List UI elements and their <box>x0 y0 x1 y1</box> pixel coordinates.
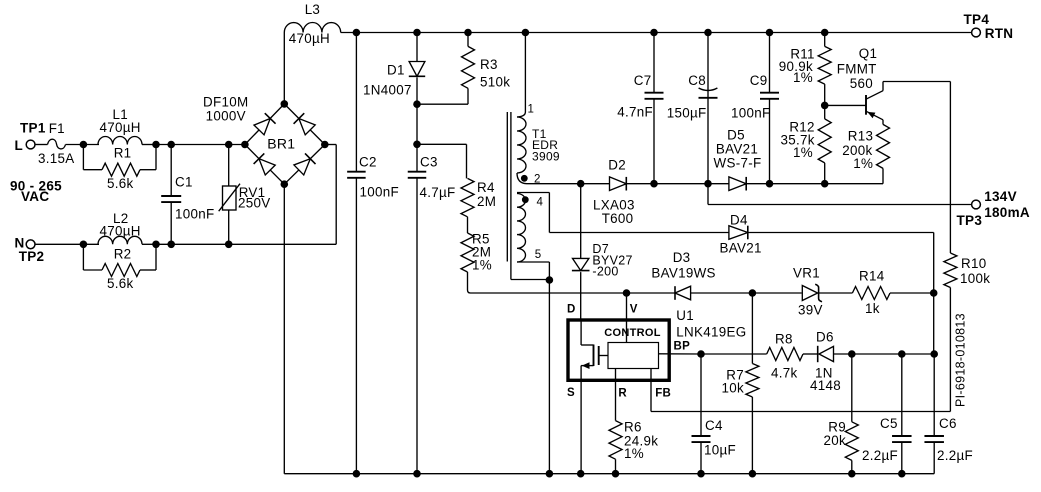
svg-text:LNK419EG: LNK419EG <box>676 325 746 340</box>
svg-text:D2: D2 <box>608 158 626 173</box>
svg-text:BAV21: BAV21 <box>716 142 758 157</box>
svg-text:T600: T600 <box>602 211 634 226</box>
svg-text:R6: R6 <box>624 420 642 435</box>
svg-text:1%: 1% <box>793 145 813 160</box>
svg-text:BP: BP <box>674 341 691 353</box>
svg-text:4.7k: 4.7k <box>771 366 798 381</box>
svg-text:RTN: RTN <box>985 26 1014 41</box>
svg-text:D: D <box>567 304 576 316</box>
svg-text:100nF: 100nF <box>175 207 214 222</box>
svg-text:TP3: TP3 <box>957 213 983 228</box>
svg-text:PI-6918-010813: PI-6918-010813 <box>954 313 968 407</box>
svg-text:100nF: 100nF <box>360 185 399 200</box>
svg-text:1%: 1% <box>793 70 813 85</box>
svg-text:1%: 1% <box>472 258 492 273</box>
svg-text:D4: D4 <box>730 213 748 228</box>
svg-text:10µF: 10µF <box>704 443 736 458</box>
svg-text:U1: U1 <box>676 308 694 323</box>
svg-text:L3: L3 <box>305 2 321 17</box>
svg-text:250V: 250V <box>238 195 270 210</box>
svg-text:TP4: TP4 <box>964 12 990 27</box>
svg-text:470µH: 470µH <box>100 224 141 239</box>
svg-text:FB: FB <box>655 388 671 400</box>
svg-text:WS-7-F: WS-7-F <box>714 156 762 171</box>
svg-text:560: 560 <box>850 76 873 91</box>
svg-text:4.7µF: 4.7µF <box>420 185 456 200</box>
svg-text:5.6k: 5.6k <box>107 276 134 291</box>
svg-text:D1: D1 <box>387 63 405 78</box>
svg-text:-200: -200 <box>592 264 618 278</box>
svg-text:F1: F1 <box>49 121 65 136</box>
svg-text:1: 1 <box>528 104 535 116</box>
svg-text:D3: D3 <box>673 250 691 265</box>
svg-text:100nF: 100nF <box>731 106 770 121</box>
svg-text:R: R <box>618 388 627 400</box>
svg-text:C7: C7 <box>634 73 652 88</box>
svg-text:DF10M: DF10M <box>203 95 248 110</box>
svg-text:10k: 10k <box>722 381 745 396</box>
svg-text:1N4007: 1N4007 <box>363 83 412 98</box>
svg-text:TP2: TP2 <box>19 249 45 264</box>
svg-text:TP1: TP1 <box>20 121 46 136</box>
svg-text:Q1: Q1 <box>859 46 877 61</box>
svg-text:C1: C1 <box>175 174 193 189</box>
svg-text:L: L <box>15 138 24 153</box>
svg-text:C5: C5 <box>880 416 898 431</box>
svg-text:134V: 134V <box>984 189 1017 204</box>
svg-text:C4: C4 <box>705 418 723 433</box>
svg-text:1000V: 1000V <box>206 108 246 123</box>
svg-text:C2: C2 <box>359 155 377 170</box>
svg-text:R14: R14 <box>859 269 885 284</box>
svg-text:100k: 100k <box>960 271 990 286</box>
svg-text:4.7nF: 4.7nF <box>617 105 653 120</box>
svg-text:D6: D6 <box>816 330 834 345</box>
svg-text:4: 4 <box>537 197 544 209</box>
svg-text:CONTROL: CONTROL <box>604 327 660 339</box>
svg-text:S: S <box>567 387 575 399</box>
svg-text:BR1: BR1 <box>267 135 295 151</box>
svg-text:510k: 510k <box>480 75 510 90</box>
svg-text:180mA: 180mA <box>984 205 1030 220</box>
svg-text:C6: C6 <box>939 416 957 431</box>
svg-text:R4: R4 <box>477 180 495 195</box>
svg-text:R3: R3 <box>480 57 498 72</box>
svg-text:2.2µF: 2.2µF <box>937 448 973 463</box>
svg-text:VAC: VAC <box>21 189 49 204</box>
svg-text:470µH: 470µH <box>289 31 330 46</box>
svg-text:C9: C9 <box>750 73 768 88</box>
svg-text:R2: R2 <box>114 247 132 262</box>
svg-text:V: V <box>630 304 638 316</box>
svg-text:R10: R10 <box>961 256 986 271</box>
svg-text:39V: 39V <box>798 303 823 318</box>
svg-text:BAV21: BAV21 <box>720 241 762 256</box>
svg-text:R1: R1 <box>114 146 132 161</box>
svg-text:470µH: 470µH <box>100 120 141 135</box>
svg-text:D5: D5 <box>727 128 745 143</box>
svg-text:R13: R13 <box>848 129 873 144</box>
svg-text:C3: C3 <box>420 155 438 170</box>
svg-text:2.2µF: 2.2µF <box>862 448 898 463</box>
svg-text:1k: 1k <box>865 301 880 316</box>
svg-text:5.6k: 5.6k <box>107 176 134 191</box>
svg-text:5: 5 <box>535 249 542 261</box>
svg-text:FMMT: FMMT <box>837 61 877 76</box>
svg-text:150µF: 150µF <box>667 106 707 121</box>
svg-text:BAV19WS: BAV19WS <box>651 265 715 280</box>
svg-text:R8: R8 <box>775 332 793 347</box>
svg-text:2M: 2M <box>477 194 496 209</box>
svg-text:20k: 20k <box>824 433 847 448</box>
svg-text:1%: 1% <box>853 156 873 171</box>
svg-text:4148: 4148 <box>810 378 841 393</box>
svg-text:C8: C8 <box>688 73 706 88</box>
svg-text:3909: 3909 <box>532 150 560 164</box>
svg-text:VR1: VR1 <box>793 266 820 281</box>
svg-text:1%: 1% <box>624 446 644 461</box>
svg-text:3.15A: 3.15A <box>38 151 75 166</box>
